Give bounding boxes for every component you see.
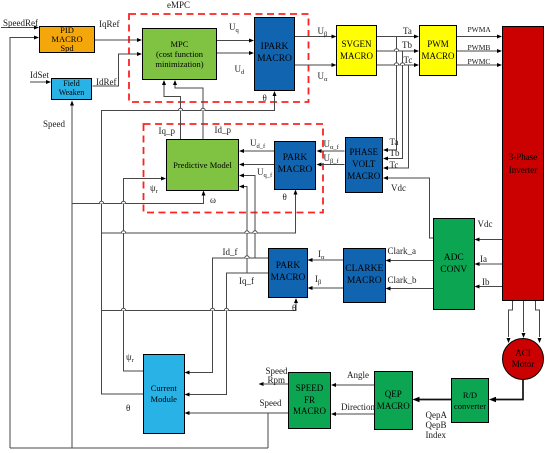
label Rpm line2 — [268, 376, 286, 385]
label Ua_f — [324, 140, 339, 149]
label Ubeta — [318, 27, 328, 36]
arrow PWMC into inverter — [497, 63, 502, 67]
arrow Ud into IPARK — [249, 51, 254, 55]
hop on theta-park line over Id_f branch — [253, 231, 257, 233]
label omega — [210, 196, 216, 205]
arrow Ualpha into SVGEN — [332, 63, 337, 67]
wire psi_r — [124, 179, 162, 372]
wire SpeedRef — [1, 27, 34, 29]
label IdRef — [96, 78, 117, 87]
arrow Ua_f into PARK — [317, 149, 322, 153]
label Angle — [347, 371, 369, 380]
wire Ua_f — [322, 150, 345, 152]
arrow Vdc into PHASEVOLT — [383, 176, 388, 180]
label Clark_a — [388, 247, 417, 256]
block ACI Motor — [502, 338, 544, 380]
label Uq_f — [257, 168, 272, 177]
wire speed feedback to PID — [10, 38, 34, 449]
label Ud — [235, 65, 245, 74]
wire Uq — [217, 40, 250, 42]
dashed box predictive — [144, 124, 324, 213]
label psi_r lower — [126, 353, 134, 362]
arrow Ia into ADC — [475, 262, 480, 266]
arrow Speed into CurrentModule — [185, 411, 190, 415]
wire Motor to RD thick — [495, 380, 523, 400]
wire Ud_f — [244, 150, 275, 152]
block SPEED FR MACRO — [288, 372, 331, 429]
wire Iq_f branch up — [244, 187, 247, 274]
wire Ta drop — [388, 37, 397, 151]
block 3-Phase Inverter — [502, 26, 544, 301]
label Tc phasevolt — [390, 161, 399, 170]
label Ud_f — [250, 139, 265, 148]
hop on theta line over Iq_p — [178, 108, 182, 110]
wire bottom rail — [10, 447, 268, 449]
hop on theta-park line over psi rail — [121, 231, 125, 233]
label PWMB — [468, 44, 491, 52]
label Uq — [229, 23, 239, 32]
arrow theta into upper PARK — [294, 190, 298, 195]
arrow omega into PredictiveModel — [202, 191, 206, 196]
hop on theta-lowerpark line over Id_f down — [210, 308, 214, 310]
wire inverter to motor right — [536, 301, 540, 337]
hop on theta-park line over Iq_f branch — [245, 231, 249, 233]
wire IdRef — [93, 54, 138, 86]
wire PWMB — [457, 50, 498, 52]
hop on theta line over Id_p — [201, 108, 205, 110]
label QepB — [426, 421, 447, 430]
wire Direction — [336, 413, 374, 415]
label Ta phasevolt — [390, 138, 399, 147]
wire Ib — [480, 286, 503, 288]
arrow Angle into SPEEDFR — [331, 383, 336, 387]
arrow Uq into IPARK — [249, 39, 254, 43]
wire Tb row — [377, 50, 414, 52]
arrow Tb into PWM — [414, 49, 419, 53]
label Ualpha — [318, 72, 328, 81]
wire theta rail — [102, 96, 275, 394]
wire Speed Rpm — [263, 383, 289, 385]
wire Tc row — [377, 64, 414, 66]
arrow Motor into RD thick — [489, 397, 496, 403]
arrow SpeedRef into PID — [34, 26, 39, 30]
hop on theta-lowerpark line over Iq_f down — [224, 308, 228, 310]
label Clark_b — [388, 276, 417, 285]
block IPARK MACRO — [254, 17, 295, 91]
arrow Tc into PWM — [414, 63, 419, 67]
block SVGEN MACRO — [336, 25, 377, 76]
block PID MACRO Spd — [39, 26, 95, 53]
block MPC — [142, 28, 217, 80]
label IqRef — [99, 20, 120, 29]
arrow Id_f into PM — [239, 174, 244, 178]
wire omega — [72, 196, 204, 204]
arrow I_alpha into lower PARK — [308, 258, 313, 262]
hop on theta-lowerpark line over psi rail — [121, 308, 125, 310]
arrow RD into QEP thick — [413, 397, 420, 403]
label Ia — [480, 255, 487, 264]
block Predictive Model — [166, 139, 239, 191]
arrow Tb into PHASEVOLT — [383, 157, 388, 161]
wire speed to Field Weaken — [71, 105, 73, 448]
block ADC CONV — [433, 218, 475, 310]
wire Id_f branch up — [244, 176, 255, 259]
label Speed left — [43, 120, 65, 129]
label theta ipark — [263, 94, 267, 103]
arrow Ub_f into PARK — [317, 163, 322, 167]
block PHASE VOLT MACRO — [345, 137, 384, 193]
wire Iq_f — [190, 273, 269, 395]
wire Ia — [480, 263, 503, 265]
label psi_r upper — [150, 184, 158, 193]
wire PWMC — [457, 64, 498, 66]
arrow Vdc into ADC — [475, 238, 480, 242]
wire Vdc out — [388, 178, 433, 238]
label Ub_f — [324, 154, 339, 163]
hop on Tb row over Ta drop — [394, 49, 398, 51]
wire Speed branch down — [267, 413, 269, 448]
arrow Ubeta into SVGEN — [332, 35, 337, 39]
wire Tc drop — [388, 65, 409, 168]
label Vdc adc — [478, 220, 493, 229]
arrow theta into lower PARK — [294, 298, 298, 303]
wire Ud — [217, 52, 250, 54]
wire theta to lower park — [102, 303, 297, 311]
block PWM MACRO — [419, 25, 457, 76]
wire Speed from SPEEDFR — [190, 412, 289, 414]
dashed box eMPC — [129, 14, 309, 102]
arrow inverter to motor left — [507, 338, 511, 343]
label PWMA — [468, 26, 491, 34]
wire Id_p — [175, 85, 203, 139]
wire Ubeta — [295, 36, 332, 38]
block PARK MACRO lower — [268, 248, 308, 298]
arrow Iq_f into CurrentModule — [185, 393, 190, 397]
arrow IqRef into MPC — [137, 38, 142, 42]
label Tb phasevolt — [390, 149, 400, 158]
arrow inverter to motor mid — [522, 333, 526, 338]
block Current Module — [143, 354, 185, 434]
label Vdc phasevolt — [391, 184, 406, 193]
wire Tb drop — [388, 51, 403, 159]
wire I_beta — [313, 287, 344, 289]
arrow psi_r into PredictiveModel — [161, 177, 166, 181]
label I_beta — [315, 275, 321, 284]
arrow Ib into ADC — [475, 285, 480, 289]
wire Iq_p — [164, 85, 181, 139]
arrow I_beta into lower PARK — [308, 286, 313, 290]
hop on Tc row over Tb drop — [400, 63, 404, 65]
wire inverter to motor left — [509, 301, 513, 337]
wire Uq_f — [244, 164, 275, 166]
wire Id_f — [190, 258, 269, 373]
hop on Id_f line over Iq_f branch — [245, 256, 249, 258]
wire Clark_b — [391, 288, 434, 290]
label theta upper park — [283, 193, 287, 202]
hop on omega line over theta rail — [99, 201, 103, 203]
wire PWMA — [457, 36, 498, 38]
arrow Ta into PHASEVOLT — [383, 148, 388, 152]
arrow IdRef into MPC — [137, 52, 142, 56]
arrow Uq_f into PM — [239, 163, 244, 167]
wire Clark_a — [391, 260, 434, 262]
wire IdSet — [30, 81, 46, 83]
label Direction — [341, 403, 375, 412]
label Speed bottom — [260, 399, 282, 408]
label IdSet — [30, 71, 49, 80]
label QepA — [426, 411, 448, 420]
label eMPC — [167, 1, 190, 10]
wire IqRef — [95, 39, 138, 41]
label Iq_f — [239, 277, 254, 286]
arrow Tc into PHASEVOLT — [383, 166, 388, 170]
wire theta to upper park — [102, 195, 296, 234]
arrow IdSet into FieldWeaken — [46, 80, 51, 84]
label SpeedRef — [3, 19, 38, 28]
arrows right-pointing — [34, 26, 542, 417]
wire Angle — [336, 384, 374, 386]
arrow Iq_f into PM — [239, 185, 244, 189]
arrow Clark_b into CLARKE — [386, 287, 391, 291]
label Iq_p — [159, 127, 176, 136]
label theta lower park — [292, 304, 296, 313]
wire I_alpha — [313, 259, 344, 261]
wire Ub_f — [322, 164, 345, 166]
block R/D converter — [451, 378, 489, 423]
block CLARKE MACRO — [343, 248, 386, 303]
wire Ualpha — [295, 64, 332, 66]
label theta current module — [126, 404, 130, 413]
wire Ta row — [377, 36, 414, 38]
block PARK MACRO upper — [274, 141, 316, 190]
arrow speed into FieldWeaken — [70, 101, 74, 106]
arrow Iq_p into MPC — [162, 80, 166, 85]
label Ib — [482, 278, 490, 287]
arrow SpeedRpm end — [259, 382, 264, 386]
block QEP MACRO — [374, 371, 413, 430]
wire inverter to motor mid — [523, 301, 525, 332]
arrow speed into PID — [34, 36, 39, 40]
label Id_f — [223, 248, 238, 257]
label Ta top — [403, 27, 412, 36]
label Tc top — [404, 56, 413, 65]
label Speed rpm line1 — [266, 367, 288, 376]
arrow Direction into SPEEDFR — [331, 412, 336, 416]
arrow Ta into PWM — [414, 35, 419, 39]
label Tb top — [402, 41, 412, 50]
arrow PWMA into inverter — [497, 35, 502, 39]
label PWMC — [468, 58, 491, 66]
hop on omega line over psi rail — [121, 201, 125, 203]
arrow Ud_f into PM — [239, 149, 244, 153]
hop on Tc row over Ta drop — [394, 63, 398, 65]
label Id_p — [215, 126, 232, 135]
arrow Clark_a into CLARKE — [386, 259, 391, 263]
arrow inverter to motor right — [538, 338, 542, 343]
label Index — [426, 431, 447, 440]
arrow Id_f into CurrentModule — [185, 371, 190, 375]
wire QEP to RD thick — [419, 399, 451, 401]
wire Vdc sense — [480, 239, 503, 241]
arrow Id_p into MPC — [173, 80, 177, 85]
block Field Weaken — [51, 78, 92, 100]
arrow PWMB into inverter — [497, 49, 502, 53]
label I_alpha — [318, 250, 324, 259]
arrow theta into IPARK — [273, 91, 277, 96]
